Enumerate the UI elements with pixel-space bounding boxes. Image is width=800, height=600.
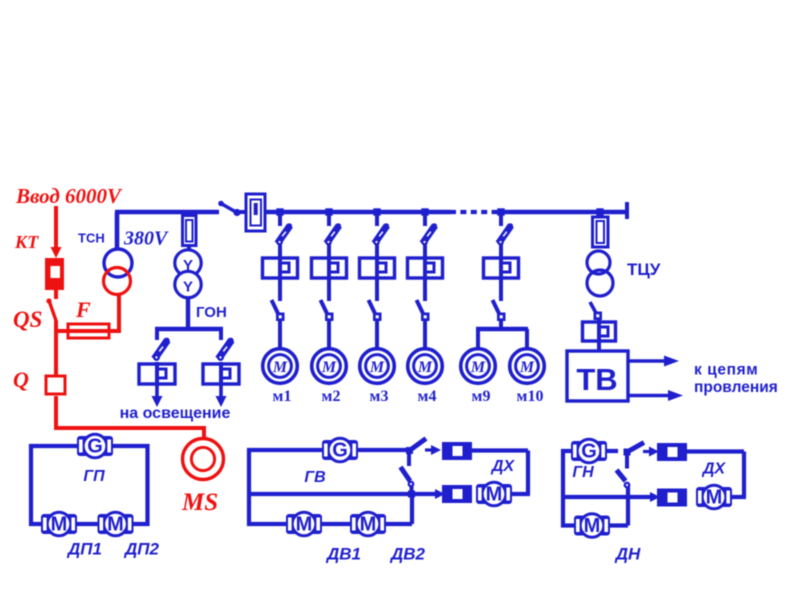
svg-text:М: М [296, 514, 313, 536]
wire bus drop м2 [327, 212, 331, 226]
switch GN middle [617, 470, 631, 488]
arrow GV brake [425, 445, 441, 455]
bus section middle [265, 210, 450, 215]
motor м4 [408, 349, 443, 384]
bus junction м4 [421, 208, 428, 215]
brake resistor GV [442, 442, 472, 460]
switch GN top [624, 443, 645, 469]
svg-text:ГВ: ГВ [304, 469, 325, 486]
switch м3 [369, 300, 382, 321]
arrow to lighting left [152, 384, 163, 407]
wire bus drop TCU [598, 212, 602, 218]
wire MS drop [202, 426, 206, 438]
switch м2 [321, 300, 334, 321]
wire to switch м1 [278, 278, 282, 301]
rectifier unit TV [567, 351, 628, 401]
switch GV top [406, 439, 426, 467]
svg-text:ДП2: ДП2 [123, 540, 160, 559]
svg-text:м9: м9 [472, 388, 491, 405]
wire drop м10 [525, 329, 529, 350]
wire to contactor м2 [327, 243, 331, 258]
svg-text:к цепям: к цепям [694, 362, 758, 379]
current transformer KT [45, 258, 64, 290]
arrow incoming feed [51, 206, 62, 258]
generator GP [77, 434, 113, 458]
svg-text:М: М [360, 514, 377, 536]
resistor GN motor [657, 489, 687, 507]
contactor lighting left [139, 362, 175, 386]
wire switch to breaker [239, 210, 247, 214]
contactor lighting right [203, 362, 239, 386]
wire GN right drop [742, 452, 746, 498]
svg-text:М: М [706, 487, 723, 509]
resistor GV motor [442, 485, 472, 503]
svg-text:Y: Y [183, 279, 193, 296]
wire ДН riser [626, 487, 630, 526]
fuse-switch м4 [421, 223, 437, 245]
generator GV [322, 438, 358, 462]
contactor м4 [408, 256, 443, 280]
fuse-switch м1 [276, 223, 292, 245]
lighting splitter bar [155, 327, 223, 332]
svg-text:м3: м3 [370, 388, 389, 405]
motor ДН [574, 514, 610, 538]
splitter bar м9/м10 [476, 327, 528, 331]
svg-text:G: G [332, 440, 348, 462]
wire to switch м2 [327, 278, 331, 301]
brake resistor GN [657, 443, 687, 461]
svg-text:м10: м10 [517, 388, 544, 405]
motor ДП2 [98, 512, 134, 536]
wire drop м9 [476, 329, 480, 350]
arrow to control circuits 1 [628, 356, 679, 367]
contactor м3 [360, 256, 395, 280]
wire to contactor м4 [423, 243, 427, 258]
svg-text:G: G [581, 441, 597, 463]
fuse-switch lighting left [153, 338, 170, 361]
wire GV middle [249, 492, 438, 496]
svg-text:М: М [486, 484, 503, 506]
arrow GN brake [643, 447, 659, 457]
wire bus drop м4 [423, 212, 427, 226]
arrow to lighting right [216, 384, 227, 407]
bus switch [218, 201, 240, 216]
fuse-switch м9/м10 [497, 223, 513, 245]
bus section right [497, 210, 627, 215]
transformer TSN secondary winding [104, 268, 131, 295]
transformer TSN primary winding [104, 249, 132, 277]
wire GN middle [563, 495, 650, 499]
fuse-switch м3 [373, 223, 389, 245]
bus section left [115, 210, 219, 215]
loop GV frame [249, 450, 412, 524]
wire Q to MS [54, 426, 204, 430]
wire Q down [54, 396, 58, 428]
contactor м2 [312, 256, 347, 280]
wire to TV [597, 341, 601, 352]
svg-text:ДН: ДН [614, 545, 641, 564]
svg-text:м1: м1 [273, 388, 292, 405]
svg-text:QS: QS [13, 307, 42, 332]
motor м9 [461, 349, 496, 384]
contactor TCU [583, 320, 616, 343]
loop GP frame [31, 446, 148, 524]
switch GV middle [401, 467, 416, 498]
bus end terminator [625, 202, 629, 219]
generator GN [571, 439, 607, 463]
breaker Q [46, 376, 65, 394]
wire fuse to GON [187, 245, 191, 251]
motor м1 [263, 349, 298, 384]
transformer TCU secondary winding [587, 270, 613, 296]
svg-text:Ввод 6000V: Ввод 6000V [15, 184, 123, 208]
wire QS to Q [54, 321, 58, 378]
svg-text:ГП: ГП [83, 468, 105, 485]
wire GV right drop [526, 451, 530, 495]
fuse-switch lighting right [217, 338, 234, 361]
switch TCU [590, 302, 602, 320]
svg-text:ТСН: ТСН [78, 231, 105, 246]
wire to contactor м3 [375, 243, 379, 258]
motor ДВ1 [286, 512, 322, 536]
disconnector QS [46, 298, 56, 322]
svg-text:Q: Q [13, 367, 29, 392]
svg-text:М: М [321, 359, 337, 376]
switch м4 [417, 300, 430, 321]
svg-text:ТЦУ: ТЦУ [627, 260, 661, 279]
svg-text:провления: провления [694, 379, 778, 396]
fuse FU GON [183, 216, 197, 246]
wire to switch м3 [375, 278, 379, 301]
synchronous motor MS [183, 439, 224, 480]
switch м9/м10 [493, 300, 506, 321]
wire GV top right [472, 448, 528, 452]
transformer GON secondary winding [175, 271, 201, 297]
main breaker [246, 194, 265, 231]
motor ДП1 [41, 512, 77, 536]
wire to motor м2 [327, 320, 331, 350]
wire to motor м4 [423, 320, 427, 350]
svg-text:F: F [75, 297, 91, 322]
fuse FU TCU [593, 217, 609, 247]
svg-text:М: М [519, 359, 535, 376]
svg-text:М: М [584, 515, 601, 537]
svg-text:ГН: ГН [572, 464, 594, 481]
arrow GN motor [650, 492, 660, 502]
arrow to control circuits 2 [628, 390, 683, 401]
wire QS to fuse F [54, 329, 121, 333]
svg-text:ДХ: ДХ [701, 461, 727, 478]
svg-text:G: G [87, 436, 103, 458]
wire to splitter м9/м10 [499, 320, 503, 330]
svg-text:М: М [272, 359, 288, 376]
wire bus drop м1 [278, 212, 282, 226]
bus junction м2 [325, 208, 332, 215]
arrow GV motor [435, 489, 445, 499]
transformer TCU primary winding [587, 251, 610, 274]
svg-text:на освещение: на освещение [120, 405, 231, 422]
bus junction м1 [276, 208, 283, 215]
fuse F [68, 324, 109, 338]
bus junction TCU [596, 208, 603, 215]
svg-text:М: М [107, 514, 124, 536]
bus junction м9/м10 [497, 208, 504, 215]
wire GON down [186, 297, 190, 329]
wire to switch м4 [423, 278, 427, 301]
contactor м9/м10 [484, 256, 519, 280]
wire bus drop м9/м10 [499, 212, 503, 226]
svg-text:ДВ2: ДВ2 [389, 545, 426, 564]
svg-text:М: М [51, 514, 68, 536]
lighting right stub [219, 329, 223, 340]
wire to motor м3 [375, 320, 379, 350]
wire F to TSN [117, 294, 121, 331]
switch м1 [272, 300, 285, 321]
motor ДХ GN [696, 485, 732, 509]
wire motor ДХ GV right [512, 492, 530, 496]
motor м3 [360, 349, 395, 384]
svg-text:КТ: КТ [14, 232, 39, 252]
svg-text:М: М [417, 359, 433, 376]
svg-text:м4: м4 [418, 388, 437, 405]
wire bus to TSN [115, 212, 120, 250]
wire to motor м1 [278, 320, 282, 350]
wire KT to QS [54, 290, 58, 299]
loop GN frame [563, 451, 628, 526]
transformer GON primary winding [175, 250, 201, 276]
wire GN top right [687, 449, 744, 453]
motor м10 [510, 349, 545, 384]
wire to contactor м9/м10 [499, 243, 503, 258]
wire to switch м9/м10 [499, 278, 503, 301]
svg-text:ДП1: ДП1 [66, 540, 102, 559]
motor м2 [312, 349, 347, 384]
motor ДХ GV [476, 482, 512, 506]
lighting left stub [155, 329, 159, 340]
fuse-switch м2 [325, 223, 341, 245]
svg-text:380V: 380V [123, 228, 169, 250]
svg-text:М: М [470, 359, 486, 376]
contactor м1 [263, 256, 298, 280]
svg-text:М: М [369, 359, 385, 376]
svg-text:ТВ: ТВ [576, 362, 617, 397]
bus dashed section [450, 210, 498, 214]
bus junction м3 [373, 208, 380, 215]
motor ДВ2 [350, 512, 386, 536]
svg-text:ДВ1: ДВ1 [325, 545, 361, 564]
wire ДВ2 riser [410, 494, 414, 524]
wire motor ДХ GN right [732, 495, 746, 499]
svg-text:ГОН: ГОН [196, 304, 227, 321]
wire bus drop м3 [375, 212, 379, 226]
svg-text:MS: MS [181, 489, 218, 516]
svg-text:ДХ: ДХ [490, 458, 516, 475]
svg-text:м2: м2 [322, 388, 341, 405]
wire to contactor м1 [278, 243, 282, 258]
